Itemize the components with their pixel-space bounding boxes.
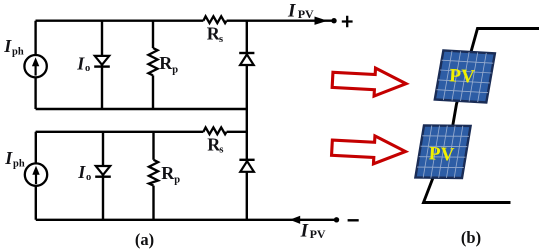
label Io1 (76, 53, 90, 74)
PV module 1 (435, 50, 495, 102)
node: - terminal dot (334, 217, 339, 222)
label Rp1 (159, 53, 178, 75)
svg-text:(b): (b) (461, 228, 481, 247)
resistor Rs2 (203, 127, 226, 134)
wire: cell1 top rail (node +) (36, 20, 332, 22)
svg-text:I: I (4, 148, 13, 168)
current source Iph2 (25, 163, 47, 185)
label Rs2 (207, 134, 223, 155)
node: + terminal dot (331, 18, 336, 23)
resistor Rs1 (203, 16, 226, 23)
svg-text:I: I (77, 162, 86, 182)
svg-text:R: R (159, 53, 173, 73)
svg-text:PV: PV (428, 143, 455, 165)
svg-text:I: I (76, 53, 85, 73)
label IPV bottom (300, 221, 326, 242)
label Rp2 (161, 163, 180, 185)
svg-text:PV: PV (298, 7, 314, 21)
wire: cell2 left rail (35, 132, 37, 220)
wire: Rp branch cell2 (152, 132, 154, 220)
wire: right rail with junctions (246, 21, 248, 220)
svg-text:I: I (300, 221, 309, 242)
svg-text:o: o (86, 172, 91, 183)
svg-text:o: o (85, 63, 90, 74)
label Iph2 (4, 148, 25, 170)
bypass diode DB1 (239, 53, 254, 65)
red block arrow 1 (332, 66, 407, 98)
diode D1 (Io cell1) (94, 56, 110, 67)
svg-text:s: s (219, 145, 223, 156)
PV module 2 (415, 125, 470, 178)
wire: Rp branch cell1 (152, 21, 154, 109)
wire: PV string (b) (424, 29, 540, 203)
wire: diode branch cell1 (101, 21, 103, 109)
arrow: IPV current arrow bottom (290, 216, 301, 224)
svg-text:ph: ph (13, 159, 25, 170)
label Rs1 (207, 24, 223, 45)
svg-text:p: p (172, 65, 178, 76)
wire: diode branch cell2 (102, 132, 104, 220)
svg-text:s: s (219, 34, 223, 45)
wire: cell1 left rail (34, 21, 36, 109)
current source Iph1 (24, 55, 46, 77)
wire: cell2 bottom rail (node -) (36, 219, 334, 221)
svg-text:PV: PV (449, 65, 476, 87)
wire: cell2 top rail (36, 131, 247, 133)
bypass diode DB2 (239, 160, 254, 172)
label: plus sign (342, 16, 353, 28)
label Io2 (77, 162, 91, 183)
wire: cell1 bottom rail (mid node) (36, 108, 247, 110)
diode D2 (Io cell2) (95, 166, 111, 177)
label IPV top (287, 1, 314, 22)
resistor Rp1 (148, 48, 157, 75)
svg-text:I: I (3, 36, 12, 56)
red block arrow 2 (331, 134, 406, 166)
arrow: IPV current arrow top (315, 17, 328, 25)
svg-text:I: I (287, 1, 296, 22)
resistor Rp2 (149, 160, 158, 186)
svg-text:R: R (161, 163, 175, 183)
label: minus sign (348, 219, 359, 221)
svg-text:(a): (a) (135, 230, 154, 249)
label Iph1 (3, 36, 24, 58)
svg-text:ph: ph (12, 47, 24, 58)
svg-text:p: p (174, 174, 180, 185)
svg-text:PV: PV (310, 227, 326, 241)
